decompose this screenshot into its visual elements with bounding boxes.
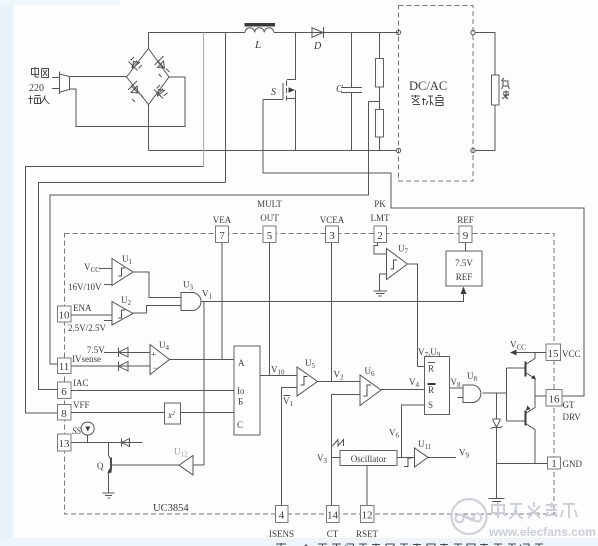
svg-text:R: R: [428, 385, 434, 395]
svg-text:Б: Б: [238, 397, 243, 407]
bridge diode 2 (top-right): [155, 56, 170, 77]
wire U8 out to driver: [483, 392, 507, 394]
wire U4 out / A input: [170, 359, 235, 361]
wire U2 out to U3: [133, 306, 181, 314]
wire RSET pin12 to osc: [366, 466, 368, 506]
svg-text:2: 2: [377, 230, 383, 242]
wire FF out V8 to U8: [450, 387, 464, 389]
svg-text:LMT: LMT: [371, 213, 391, 223]
wire V1 branch down to inverter: [203, 302, 205, 466]
SS wire from pin13: [71, 442, 143, 444]
pin 12: [361, 506, 375, 523]
svg-text:1: 1: [551, 458, 557, 470]
svg-text:Io: Io: [237, 386, 245, 396]
ENA wire from pin10: [71, 314, 112, 316]
top transistor QT: [507, 367, 525, 369]
gnd wire to pin1: [497, 463, 548, 465]
sawtooth symbol: [333, 440, 344, 447]
wire VFF path to pin8: [39, 183, 226, 390]
svg-text:VCC: VCC: [562, 349, 581, 359]
svg-text:C: C: [336, 84, 343, 95]
svg-text:Oscillator: Oscillator: [351, 454, 387, 464]
svg-text:SS: SS: [72, 426, 82, 436]
pin 9: [459, 226, 472, 243]
svg-text:Q: Q: [97, 461, 104, 471]
svg-text:13: 13: [59, 438, 71, 450]
svg-text:DRV: DRV: [563, 412, 582, 422]
pin 1: [548, 457, 561, 469]
svg-text:3: 3: [329, 230, 335, 242]
main rectified bus: [149, 32, 246, 34]
svg-text:S: S: [271, 87, 276, 98]
pin 16: [546, 390, 562, 407]
wire IAC path to pin6: [26, 167, 204, 414]
svg-text:REF: REF: [457, 215, 474, 225]
bottom transistor QB: [507, 420, 525, 422]
svg-text:7: 7: [219, 230, 225, 242]
plug connector: [52, 72, 70, 95]
comparator U2: [112, 302, 133, 326]
wire pin9 to REF: [465, 243, 467, 252]
output node wire to pin16: [535, 395, 546, 397]
wire pin7 to A-node: [221, 243, 223, 360]
diode at U4 - input: [71, 365, 150, 367]
svg-text:14: 14: [327, 510, 339, 522]
svg-text:VEA: VEA: [213, 215, 232, 225]
inductor L winding: [245, 28, 274, 33]
RS flip-flop U9: [425, 357, 450, 415]
svg-text:16V/10V: 16V/10V: [68, 282, 102, 292]
oscillator block: [340, 451, 397, 466]
wire ramp to U6 lower input: [332, 394, 361, 396]
wire IAC to Io input: [71, 390, 234, 392]
wire squarer to B input: [181, 412, 235, 414]
op-amp U4 (voltage error amp): [150, 345, 170, 375]
AND gate U8: [463, 385, 481, 403]
svg-text:4: 4: [279, 510, 285, 522]
VFF sense tap from bus: [225, 33, 227, 183]
output capacitor C: [341, 33, 362, 151]
pin 6: [58, 382, 72, 399]
wire V6: osc out up to FF S: [397, 405, 425, 458]
pin 8: [58, 405, 72, 421]
gate drive trunk wire: [263, 173, 584, 396]
multiplier block: [234, 346, 260, 435]
svg-text:6: 6: [61, 386, 67, 398]
svg-text:S: S: [428, 400, 433, 410]
svg-text:7.5V: 7.5V: [455, 258, 473, 268]
ground symbol bottom right: [489, 499, 505, 505]
diode at U4 + input: [104, 352, 150, 354]
boost diode D: [312, 28, 323, 38]
svg-text:11: 11: [59, 361, 70, 373]
svg-text:ENA: ENA: [73, 303, 92, 313]
bottom caption (clipped): [276, 543, 543, 546]
SS diode: [122, 439, 130, 447]
load wires: [475, 33, 495, 151]
ground under Q: [103, 493, 115, 498]
ground under U7: [374, 291, 388, 296]
x^2 squarer block: [165, 403, 181, 424]
wire CT node: U6 input down to osc and pin14: [332, 395, 341, 506]
AND gate U3: [181, 293, 201, 311]
pin 4: [276, 506, 289, 523]
svg-text:IAC: IAC: [73, 378, 89, 388]
svg-text:+: +: [151, 350, 156, 360]
page tint edges: [0, 0, 13, 546]
inverter U12 (facing left): [179, 456, 193, 476]
wire V9 out: [428, 457, 456, 459]
wire U1 out to U3: [133, 272, 181, 298]
svg-text:GND: GND: [563, 459, 583, 469]
svg-text:REF: REF: [456, 272, 473, 282]
transistor Q: [108, 443, 110, 456]
pin 5: [263, 226, 276, 243]
wire pin2 to U7: [374, 243, 387, 255]
svg-text:12: 12: [362, 510, 373, 522]
svg-text:DC/AC: DC/AC: [409, 79, 447, 93]
inductor L core bar: [245, 23, 276, 27]
svg-text:L: L: [254, 39, 261, 51]
svg-text:OUT: OUT: [260, 213, 279, 223]
svg-text:9: 9: [463, 230, 469, 242]
comparator U7 (peak limit): [387, 249, 408, 280]
pin 11: [58, 358, 72, 374]
svg-text:8: 8: [61, 408, 67, 420]
svg-text:ISENS: ISENS: [269, 529, 294, 539]
divider middle wire + tap: [369, 87, 380, 110]
svg-text:www.elecfans.com: www.elecfans.com: [488, 525, 596, 539]
SS current source: [81, 422, 94, 435]
svg-text:PK: PK: [374, 199, 386, 209]
IC dashed boundary: [65, 234, 555, 515]
IAC sense tap (faint) from bus: [203, 33, 205, 167]
svg-text:16: 16: [549, 394, 561, 406]
wire divider tap to pin11: [50, 102, 369, 365]
wire plug top to bridge: [70, 76, 127, 78]
svg-text:A: A: [238, 358, 245, 368]
svg-text:2.5V/2.5V: 2.5V/2.5V: [68, 323, 107, 333]
wire plug bottom loop to bridge right corner: [70, 77, 186, 127]
MOSFET S drain wire: [287, 33, 296, 80]
svg-text:−: −: [153, 363, 158, 373]
svg-text:RSET: RSET: [356, 529, 379, 539]
svg-text:UC3854: UC3854: [153, 503, 189, 514]
pin 10: [58, 306, 72, 322]
comparator U5 (current amp): [297, 367, 318, 396]
7.5V REF block: [446, 251, 482, 286]
pin 15: [546, 344, 561, 361]
wire bridge top to bus: [148, 33, 150, 49]
MOSFET S symbol: [263, 81, 287, 101]
load resistor: [492, 75, 500, 105]
watermark 电子发烧友: [492, 502, 577, 519]
svg-text:IVsense: IVsense: [72, 354, 101, 364]
svg-text:CT: CT: [327, 529, 339, 539]
wire V1 to REF enable: [201, 289, 464, 302]
bridge diode 4 (bottom-right): [154, 85, 168, 99]
DC/AC converter dashed box: [399, 6, 474, 182]
wire ISENS pin4 up to U5: [282, 388, 298, 506]
wire V2: U5 out to U6: [318, 381, 361, 383]
comparator U6 (PWM): [360, 375, 381, 406]
zener diode: [496, 393, 498, 419]
wire pin5 to V10 node: [269, 243, 271, 376]
负载 load text: [502, 78, 510, 99]
svg-text:10: 10: [59, 310, 71, 322]
svg-text:VFF: VFF: [73, 400, 90, 410]
U7 lower input to ground: [380, 274, 387, 291]
svg-text:R: R: [428, 364, 434, 374]
pin 2: [374, 226, 387, 243]
pin 13: [58, 434, 72, 451]
wire VFF to squarer: [71, 412, 165, 414]
svg-text:220: 220: [29, 83, 44, 94]
diode bridge rectifier: [127, 49, 170, 105]
buffer U11 with schmitt: [402, 457, 415, 459]
pin 7: [216, 226, 229, 243]
wire V10 multiplier out: [260, 375, 297, 377]
wire bridge bottom to ground bus: [148, 105, 150, 151]
bridge diode 1 (top-left): [129, 57, 143, 71]
base rail: [506, 368, 508, 421]
text 电网220输入 (mains 220 input): [32, 67, 49, 78]
bridge diode 3 (bottom-left): [128, 81, 143, 102]
comparator U1: [112, 259, 133, 286]
svg-text:5: 5: [267, 230, 273, 242]
DC/AC terminals: [396, 30, 400, 34]
output divider resistor R-top: [379, 33, 381, 59]
svg-text:MULT: MULT: [257, 199, 282, 209]
wire U7 out V7 down to FF R: [408, 264, 425, 367]
svg-text:7.5V: 7.5V: [87, 345, 105, 355]
pin 14: [327, 506, 340, 523]
gate wire down: [262, 100, 264, 174]
svg-text:VCEA: VCEA: [320, 215, 345, 225]
wire pin3 to V2 node: [331, 243, 333, 382]
ground/return bus: [149, 150, 397, 152]
svg-text:D: D: [313, 41, 322, 52]
output divider resistor R-bottom: [376, 110, 384, 138]
svg-text:15: 15: [548, 348, 560, 360]
Vcc arrow rail: [516, 352, 546, 354]
svg-text:GT: GT: [563, 400, 575, 410]
wire V4: U6 out to FF: [381, 389, 425, 391]
svg-text:C: C: [237, 420, 243, 430]
变换器 text: [411, 95, 443, 106]
pin 3: [326, 226, 339, 243]
